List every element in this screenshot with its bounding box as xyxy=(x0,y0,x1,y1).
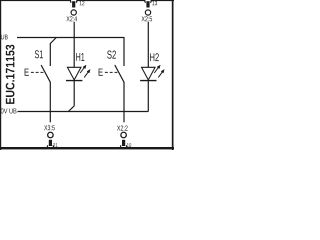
pin label 12 xyxy=(80,1,85,6)
LED H2 xyxy=(140,53,164,111)
frame border top xyxy=(0,0,174,1)
wire UB corner drop to S2 xyxy=(123,37,125,66)
label H2 xyxy=(150,53,159,61)
wire 0V rail xyxy=(18,111,149,113)
terminal circle X2:2 xyxy=(121,132,127,138)
pin label 21 xyxy=(53,143,57,147)
actuator dashed link S1 xyxy=(31,71,45,73)
light arrow H2 b xyxy=(158,71,163,78)
light arrow H1 a xyxy=(80,67,85,74)
switch lever S1 xyxy=(41,65,50,82)
wire H2 bottom corner to 0V rail xyxy=(147,81,149,112)
plug socket X2:2 xyxy=(120,145,127,148)
plug socket X2:5 xyxy=(145,0,152,4)
branch diagonal UB to S1 xyxy=(50,38,56,44)
switch S1 xyxy=(25,38,57,123)
connector name X2:2 xyxy=(117,126,128,131)
terminal circle X3:5 xyxy=(48,132,54,138)
wire S1 bottom to X3:5 xyxy=(49,82,51,122)
frame border bottom xyxy=(0,147,174,149)
junction diagonal H1 to 0V rail xyxy=(68,106,74,112)
actuator label E xyxy=(99,69,103,76)
plug pin X2:2 xyxy=(122,140,125,146)
pin label 13 xyxy=(152,1,157,6)
net label 0V UB xyxy=(1,108,17,113)
switch lever S2 xyxy=(115,65,124,82)
plug socket X2:4 xyxy=(70,0,77,4)
connector X2:5 xyxy=(142,0,158,67)
LED H1 xyxy=(66,53,90,112)
actuator label E xyxy=(25,69,29,76)
actuator dashed link S2 xyxy=(105,71,119,73)
plug socket X3:5 xyxy=(47,145,54,148)
frame border left xyxy=(0,0,1,150)
wire UB rail xyxy=(17,37,124,39)
net label UB xyxy=(1,35,8,40)
wire S1 top xyxy=(49,43,51,66)
LED triangle H2 xyxy=(142,67,156,80)
label S1 xyxy=(35,50,43,58)
light arrow H2 a xyxy=(154,67,159,74)
LED triangle H1 xyxy=(67,67,81,80)
connector name X2:4 xyxy=(66,16,77,21)
plug pin X2:5 xyxy=(146,1,149,7)
label H1 xyxy=(76,53,84,61)
plug pin X3:5 xyxy=(49,140,52,146)
label S2 xyxy=(107,51,116,59)
connector X2:2 xyxy=(117,126,131,149)
wire H1 bottom xyxy=(73,81,75,106)
wire S2 bottom to X2:2 xyxy=(123,82,125,122)
connector name X2:5 xyxy=(142,16,153,21)
connector X2:4 xyxy=(66,0,84,67)
connector name X3:5 xyxy=(44,125,55,130)
terminal circle X2:5 xyxy=(145,10,150,15)
pin label 10 xyxy=(127,143,131,147)
cable designation EUC.171153 xyxy=(6,45,15,104)
light arrow H1 b xyxy=(84,71,89,78)
terminal circle X2:4 xyxy=(71,10,76,15)
plug pin X2:4 xyxy=(72,1,75,7)
LED cathode bar H2 xyxy=(140,80,156,82)
frame border right xyxy=(172,0,174,150)
wire X2:4 to H1 xyxy=(73,22,75,68)
wire X2:5 to H2 xyxy=(147,22,149,68)
switch S2 xyxy=(99,37,124,122)
connector X3:5 xyxy=(44,125,57,148)
LED cathode bar H1 xyxy=(66,80,82,82)
